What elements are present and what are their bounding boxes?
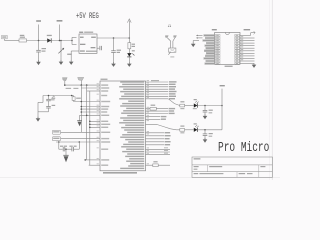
wire U2 GND pin to ground [71, 50, 79, 52]
svg-text:J1: J1 [168, 25, 172, 30]
wire RST rail [43, 95, 74, 97]
junction [86, 115, 88, 117]
connector J4 RAW pin [2, 35, 8, 38]
wires U1 right mid group [146, 108, 151, 110]
ground [59, 62, 64, 65]
ground [111, 64, 116, 67]
LED D2 RX [194, 103, 198, 107]
LED D4 TX [194, 128, 198, 132]
net flag RST [52, 96, 55, 99]
net labels left of JP1 [204, 35, 215, 36]
junction [113, 37, 115, 39]
wire row ADC3 [90, 126, 100, 128]
resistor R2 [180, 104, 185, 107]
capacitor C3 [48, 96, 50, 100]
wire XTAL1 [61, 131, 100, 133]
ground [203, 116, 208, 119]
junction [58, 141, 60, 143]
wire XTAL2 [61, 138, 100, 140]
wire [146, 118, 161, 120]
resistor R4 [180, 129, 185, 132]
power flag VCC [128, 21, 130, 39]
junction [38, 40, 40, 42]
ground [69, 62, 74, 65]
wire JP1 pin GND bottom [240, 63, 254, 65]
label flags [66, 88, 72, 89]
fuse F1 [19, 39, 27, 42]
frame bottom border [0, 176, 280, 178]
resistor R3 [150, 107, 156, 110]
junction [65, 148, 67, 150]
label U1 value [103, 172, 137, 174]
junction [71, 95, 73, 97]
junction [81, 108, 83, 110]
label USB_MINIB [225, 66, 233, 67]
U1 left pin numbers [97, 82, 99, 85]
LED D9 power [128, 49, 130, 53]
U1 pin name text right column [120, 81, 144, 82]
capacitor C2 22pF [65, 148, 72, 150]
ground [252, 65, 257, 68]
wire cap bottoms [48, 108, 50, 112]
wire row UCAP2 [89, 164, 100, 166]
wire row GND2 [81, 111, 100, 113]
title block box [192, 157, 272, 177]
ground AGND [79, 115, 81, 120]
resistor R10 [128, 43, 131, 49]
wire RST row [74, 101, 101, 103]
junction [81, 106, 83, 108]
wire row AREF [80, 114, 100, 116]
net label +5V REG heading [76, 12, 99, 21]
ground [203, 139, 208, 142]
U1 pin numbers [147, 80, 149, 81]
wire XTAL cap rail [56, 141, 100, 143]
junction [89, 121, 91, 123]
capacitor C9 on BYP [97, 47, 99, 49]
title block text date/sheet [194, 173, 199, 174]
svg-text:+5V REG: +5V REG [76, 12, 99, 21]
wire USB GND [193, 40, 199, 42]
wire [158, 164, 170, 166]
wire row PE6 [81, 106, 100, 108]
net stub RAW label [59, 25, 61, 41]
power flag VCC left [62, 78, 67, 81]
frame right border [271, 0, 273, 180]
svg-text:Pro Micro: Pro Micro [218, 139, 269, 155]
ground [127, 64, 132, 67]
capacitor C7 [48, 101, 50, 107]
wire into U2 IN/EN pins [71, 37, 73, 40]
junction [204, 129, 206, 131]
wire VCC row [65, 84, 100, 86]
U1 pin name text left column [101, 84, 108, 85]
capacitor C5 [204, 106, 206, 111]
junction [84, 159, 86, 161]
resistor R1 10K [73, 96, 75, 97]
wire [185, 105, 194, 107]
capacitor C1 22pF [58, 142, 60, 149]
wire [185, 129, 194, 131]
title text Pro Micro [218, 139, 269, 155]
ground [63, 154, 68, 156]
junction [89, 127, 91, 129]
junction [59, 40, 61, 42]
voltage regulator U2 [79, 34, 97, 53]
wire UVCC row [81, 87, 100, 89]
JP1 pin boxes left column [215, 34, 220, 36]
bus vertical 2 [86, 85, 88, 160]
wire LED to VCC rail [198, 129, 223, 131]
wire row GND1 [81, 108, 100, 110]
wires JP1 right pins [240, 37, 255, 39]
wire to RX LED [168, 99, 180, 106]
jumper SJ5 [60, 41, 62, 58]
wires U1 right lower group [146, 132, 165, 134]
wire J1 D+ to JP1 [196, 34, 202, 36]
ground [36, 118, 41, 121]
frame inner border [269, 0, 271, 180]
power flag AVCC [78, 77, 84, 80]
ground [191, 44, 196, 47]
bus vertical 3 [89, 91, 91, 165]
wire RAW input [4, 39, 6, 41]
wire J1 shield tail [168, 52, 170, 54]
label above top right wire [151, 80, 159, 81]
wire AVCC row [87, 90, 100, 92]
wire J1 D- to JP1 [196, 37, 202, 39]
junction [89, 124, 91, 126]
title block text document [194, 166, 199, 167]
wire +5V rail [97, 37, 129, 39]
wire to ground jog [42, 96, 44, 103]
junction [81, 101, 83, 103]
junction [81, 111, 83, 113]
wire LED to VCC rail [198, 105, 223, 107]
crystal Y1 [52, 130, 60, 134]
wire row ADC2 [90, 123, 100, 125]
wires U1 right top group [146, 81, 169, 83]
junction [64, 84, 66, 86]
capacitor C8 [38, 41, 40, 51]
net label VCC [244, 29, 251, 30]
diode D1 [47, 38, 51, 42]
capacitor C6 [204, 130, 206, 134]
connector J1 label [168, 25, 172, 30]
junction [204, 105, 206, 107]
connector JP1 box [215, 33, 240, 65]
IC U1 ATMEGA32U4 box [100, 81, 146, 171]
ground [36, 62, 41, 65]
connector J1 USB plug [165, 35, 168, 38]
resistor R5 [146, 164, 153, 166]
wire crystal caps to ground [65, 149, 67, 155]
wire to TX LED [146, 124, 158, 126]
wire F1 to D1 [27, 40, 48, 42]
wire VCC top right [240, 34, 251, 36]
wire [146, 116, 161, 118]
wire [146, 113, 169, 115]
wire row ADC1 [90, 120, 100, 122]
capacitor C4 [113, 38, 115, 51]
wire [146, 110, 169, 112]
bus vertical 1 [80, 85, 82, 132]
net VCC right rail [221, 89, 223, 130]
JP1 pin boxes right column [235, 34, 240, 36]
wire row UGND [85, 159, 100, 161]
node VIN stub with label [38, 25, 40, 41]
title block text TITLE [194, 158, 201, 159]
wire D1 to U2 [51, 40, 72, 42]
